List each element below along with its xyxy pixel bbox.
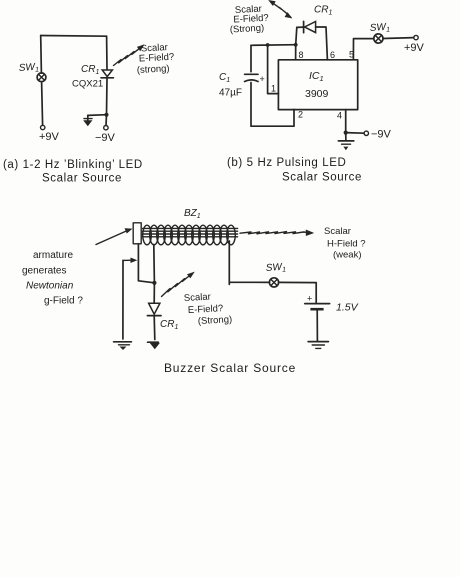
svg-text:8: 8	[299, 50, 304, 60]
svg-text:−9V: −9V	[95, 132, 116, 144]
ground (circuit a, arrow style)	[83, 115, 92, 126]
svg-text:Scalar Source: Scalar Source	[42, 173, 122, 185]
svg-text:Newtonian: Newtonian	[26, 281, 74, 292]
wire top rail circuit a	[41, 35, 107, 38]
svg-text:+9V: +9V	[404, 42, 425, 54]
lamp SW1 (circuit a)	[37, 73, 46, 82]
node dot rail-pin8	[294, 43, 298, 47]
wire node to diode	[153, 283, 155, 303]
wire to -9V terminal (b)	[346, 132, 364, 135]
junction node buzzer	[152, 281, 156, 285]
terminal -9V (circuit b)	[364, 131, 368, 135]
svg-text:Buzzer Scalar Source: Buzzer Scalar Source	[164, 361, 296, 375]
wire pin1 branch	[268, 45, 279, 94]
wire left branch to ground	[122, 260, 124, 339]
svg-text:Scalar: Scalar	[184, 292, 211, 304]
svg-text:1: 1	[271, 84, 276, 94]
svg-text:5: 5	[349, 50, 354, 60]
svg-text:1.5V: 1.5V	[336, 302, 359, 314]
ground (buzzer right)	[308, 342, 328, 349]
svg-text:CQX21: CQX21	[72, 79, 103, 90]
IC1 3909 box	[278, 60, 357, 110]
svg-text:(a) 1-2 Hz ’Blinking’ LED: (a) 1-2 Hz ’Blinking’ LED	[3, 159, 143, 171]
wire rail to diode CR1 (b)	[296, 27, 297, 44]
terminal -9V (circuit a)	[104, 126, 108, 130]
terminal +9V (circuit b)	[414, 35, 418, 39]
lamp SW1 (buzzer)	[269, 278, 278, 287]
svg-text:armature: armature	[33, 250, 73, 261]
capacitor C1 (circuit b)	[245, 74, 265, 84]
svg-text:g-Field ?: g-Field ?	[44, 296, 83, 307]
ground (buzzer left)	[114, 342, 132, 350]
wire pin8 lead	[295, 45, 297, 60]
diode CR1 (buzzer)	[147, 303, 161, 315]
buzzer coil BZ1 loops	[143, 225, 236, 245]
scalar H-field arrow (buzzer)	[240, 230, 314, 237]
svg-text:−9V: −9V	[371, 129, 392, 141]
svg-text:(weak): (weak)	[333, 250, 362, 261]
svg-text:4: 4	[337, 111, 342, 121]
wire C1 to bottom wire and pin2	[251, 83, 294, 127]
wire lamp to +9V terminal (b)	[383, 37, 414, 40]
battery 1.5V	[305, 294, 330, 310]
svg-text:H-Field ?: H-Field ?	[327, 239, 366, 250]
wire diode to ground	[153, 316, 156, 340]
junction node pin4	[344, 131, 348, 135]
wire coil-left down to node	[153, 245, 156, 283]
svg-text:6: 6	[330, 50, 335, 60]
wire left vertical to lamp	[40, 36, 43, 74]
wire pin4 down	[345, 110, 347, 133]
lamp SW1 (circuit b)	[374, 34, 383, 43]
top rail (b)	[251, 44, 297, 47]
svg-text:47µF: 47µF	[219, 88, 242, 99]
svg-text:+: +	[307, 294, 312, 304]
buzzer armature	[133, 223, 141, 244]
svg-text:(Strong): (Strong)	[230, 23, 265, 36]
svg-text:+9V: +9V	[39, 131, 60, 143]
ground (buzzer diode, arrow style)	[148, 342, 160, 349]
wire armature down	[138, 244, 154, 283]
scalar E-field arrow (circuit a)	[114, 44, 145, 65]
svg-text:Scalar Source: Scalar Source	[282, 172, 362, 184]
scalar E-field arrow (circuit b)	[268, 0, 292, 18]
ground (circuit b)	[338, 133, 353, 151]
LED CR1 (circuit a)	[101, 70, 113, 78]
wire right vertical to diode	[106, 36, 108, 69]
wire coil-right down and to lamp	[229, 241, 269, 284]
wire lamp to battery	[279, 282, 317, 303]
junction node (circuit a)	[105, 113, 109, 117]
svg-text:+: +	[260, 74, 265, 84]
svg-text:(b) 5 Hz Pulsing LED: (b) 5 Hz Pulsing LED	[227, 157, 346, 169]
wire battery to ground	[316, 309, 318, 341]
svg-text:(strong): (strong)	[137, 63, 170, 76]
wire junction to ground branch	[88, 114, 107, 117]
wire pin5 to lamp	[353, 39, 373, 60]
svg-text:(Strong): (Strong)	[198, 314, 233, 327]
wire lamp to +9V terminal	[42, 82, 43, 126]
stub arrow to armature wire	[123, 258, 137, 264]
svg-text:3909: 3909	[305, 88, 329, 100]
buzzer core lines	[143, 228, 238, 236]
wire C1 branch down-left	[250, 45, 252, 72]
scalar E-field arrow (buzzer)	[162, 272, 195, 297]
svg-text:2: 2	[298, 110, 303, 120]
wire junction to -9V terminal	[105, 115, 108, 126]
svg-text:generates: generates	[22, 266, 66, 277]
wire diode to junction	[106, 78, 109, 115]
node dot rail-pin1	[266, 43, 270, 47]
terminal +9V (circuit a)	[41, 125, 45, 129]
armature annotation arrow	[96, 228, 133, 244]
svg-text:Scalar: Scalar	[324, 226, 351, 237]
diode CR1 (circuit b)	[297, 21, 328, 59]
